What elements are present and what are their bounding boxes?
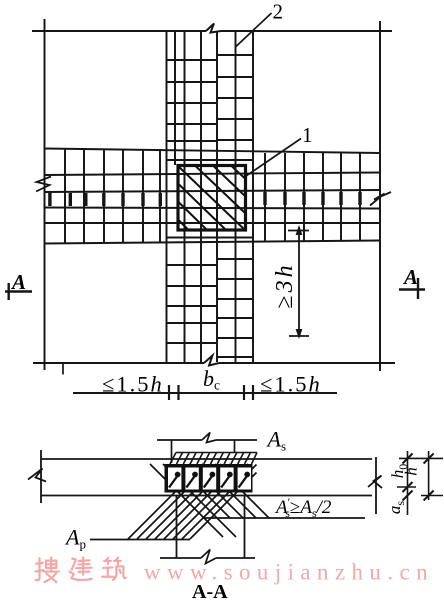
beam verticals left of column: [65, 149, 160, 243]
stirrup dashes right of column: [263, 192, 361, 205]
break squiggle slab left: [28, 469, 46, 482]
right dimension witness line h bottom: [421, 495, 443, 497]
svg-text:≤1.5h: ≤1.5h: [102, 372, 164, 397]
column below slab right edge: [244, 496, 246, 558]
break squiggle on bottom edge at column: [204, 356, 219, 366]
svg-text:A′s≥As/2: A′s≥As/2: [274, 495, 332, 520]
stirrup cells with bar hooks: [168, 468, 251, 490]
leader line of A's: [203, 517, 365, 519]
leader line of label 2: [236, 13, 272, 47]
dimension >=3h vertical line: [288, 227, 309, 337]
top slab edge line: [32, 30, 392, 32]
right dimension witness line top: [399, 457, 443, 459]
section mark A right: [399, 265, 425, 299]
watermark soujianzhu: [36, 558, 126, 582]
dimension ticks pair left: [169, 385, 179, 400]
watermark char sou: [36, 558, 59, 582]
svg-text:A: A: [402, 265, 418, 289]
svg-text:1: 1: [302, 123, 313, 147]
watermark char jian: [70, 558, 92, 581]
svg-text:A: A: [10, 270, 26, 294]
bottom slab edge line: [33, 362, 395, 364]
column strip vertical bar lines: [167, 31, 254, 362]
svg-text:www.soujianzhu.cn: www.soujianzhu.cn: [144, 560, 434, 585]
column ties upper-right group: [217, 55, 253, 140]
svg-text:As: As: [266, 427, 287, 454]
slab right end: [375, 457, 377, 514]
break squiggle left end of beam strip: [36, 177, 51, 192]
column below slab left edge: [176, 496, 178, 558]
bottom dimension line: [73, 392, 337, 394]
column ties lower-left group: [167, 265, 218, 343]
column ties lower-right group: [217, 259, 253, 357]
svg-text:≥3h: ≥3h: [272, 262, 298, 308]
stirrup cage black box row: [165, 464, 253, 493]
right slab edge line: [379, 21, 381, 371]
tendon band over column: [170, 453, 257, 465]
dimension ticks pair right: [244, 385, 253, 400]
beam strip horizontal bar lines: [45, 149, 381, 154]
diagonal hatch of column square: [179, 167, 246, 231]
bent bar lattice rising lines: [128, 464, 257, 539]
left slab edge line: [44, 19, 46, 370]
column ties upper-left group: [167, 60, 218, 141]
arrowheads of >=3h dimension: [296, 225, 303, 339]
bent bar lattice descending lines: [150, 464, 269, 537]
break squiggle slab right: [368, 476, 382, 489]
column tie below square: [167, 237, 254, 239]
svg-text:≤1.5h: ≤1.5h: [260, 372, 322, 397]
As extent verticals: [172, 440, 235, 463]
stirrup dashes left of column: [48, 193, 162, 206]
break squiggle on top edge at column: [206, 24, 221, 33]
slab top line: [41, 458, 372, 460]
svg-text:as: as: [385, 501, 407, 515]
leader line of label 1: [246, 139, 301, 177]
svg-text:h: h: [402, 467, 421, 476]
column section square (label 1): [178, 166, 246, 231]
right dimension witness line h0 bottom: [397, 486, 416, 488]
break squiggle right end of beam strip: [370, 192, 391, 206]
svg-text:2: 2: [273, 0, 284, 24]
slab bottom line: [41, 495, 372, 497]
section mark A left: [5, 270, 32, 300]
column tie above square: [167, 159, 254, 161]
As dimension line with break: [157, 433, 257, 443]
slab left end: [40, 450, 42, 503]
extra column bar line upper part: [174, 31, 176, 165]
dimension line h0/as: [407, 451, 409, 515]
beam verticals right of column: [265, 152, 360, 241]
svg-text:Ap: Ap: [64, 525, 86, 552]
column bottom break line: [160, 550, 255, 564]
watermark char zhu: [102, 558, 126, 580]
extension tick below bottom edge: [62, 363, 64, 375]
dimension line h: [428, 451, 430, 500]
45 degree ticks: [403, 454, 434, 501]
tendon band hatch: [177, 453, 251, 465]
svg-text:bc: bc: [203, 366, 220, 393]
